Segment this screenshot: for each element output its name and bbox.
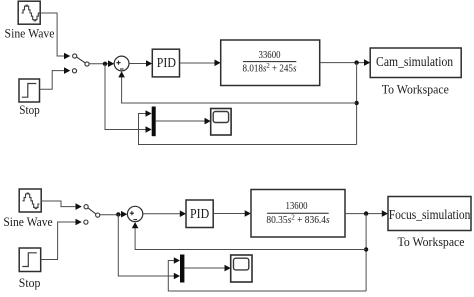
block Focus_simulation To Workspace (bottom) — [388, 197, 471, 231]
svg-text:80.35s2 + 836.4s: 80.35s2 + 836.4s — [266, 213, 329, 226]
junction node J1 (top) — [103, 62, 107, 66]
scope block (bottom) — [231, 255, 252, 282]
arrowhead into sum + (bottom) — [121, 211, 127, 218]
label Stop (bottom) — [19, 276, 41, 290]
svg-text:Stop: Stop — [19, 276, 41, 290]
label Sine Wave (top) — [5, 26, 55, 41]
wire Sine Wave to switch input 1 (top) — [40, 13, 64, 56]
wire transfer fn to Focus_simulation (bottom) — [345, 213, 382, 215]
wire PID to transfer function (top) — [180, 62, 215, 64]
arrowhead into switch input 1 (bottom) — [76, 203, 82, 210]
arrowhead into mux input 2 (top) — [146, 126, 152, 133]
arrowhead into scope (top) — [205, 118, 211, 125]
arrowhead into Focus_simulation — [382, 210, 388, 217]
arrowhead into mux input 1 (bottom) — [174, 257, 180, 264]
mux block (top) — [152, 107, 156, 137]
junction node J2 (bottom) — [364, 211, 368, 215]
source block Sine Wave (top) — [18, 1, 40, 24]
manual switch (bottom) — [84, 205, 100, 225]
svg-text:8.018s2 + 245s: 8.018s2 + 245s — [243, 62, 297, 75]
arrowhead into switch input 2 (top) — [64, 67, 70, 74]
arrowhead into switch input 1 (top) — [64, 53, 70, 60]
feedback wire to sum minus (bottom) — [135, 226, 366, 250]
svg-text:13600: 13600 — [286, 202, 308, 213]
mux block (bottom) — [180, 255, 184, 283]
sum block (top) — [114, 56, 129, 71]
wire mux to scope (top) — [156, 120, 205, 122]
arrowhead into PID (bottom) — [180, 210, 186, 217]
arrowhead up into sum minus (top) — [118, 71, 125, 77]
label Sine Wave (bottom) — [3, 214, 53, 229]
junction node on feedback rail (bottom) — [364, 247, 368, 251]
wire J1 down to mux input 2 (bottom) — [118, 214, 174, 276]
svg-text:To Workspace: To Workspace — [382, 82, 449, 96]
scope block (top) — [211, 109, 231, 136]
block PID (top) — [152, 49, 179, 77]
source block Stop (bottom) — [19, 248, 41, 272]
svg-text:Stop: Stop — [19, 102, 40, 117]
junction node J2 (top) — [354, 60, 358, 64]
svg-text:Cam_simulation: Cam_simulation — [376, 54, 454, 69]
wire Stop to switch input 2 (bottom) — [41, 222, 76, 260]
svg-text:33600: 33600 — [259, 51, 281, 62]
wire Sine Wave to switch input 1 (bottom) — [41, 201, 76, 207]
feedback wire to sum minus (top) — [122, 76, 357, 104]
wire mux to scope (bottom) — [184, 267, 225, 269]
source block Sine Wave (bottom) — [19, 189, 41, 212]
wire sum to PID (bottom) — [143, 213, 181, 215]
arrowhead into scope (bottom) — [225, 265, 231, 272]
arrowhead into sum + (top) — [108, 60, 114, 67]
label To Workspace (bottom) — [398, 234, 465, 248]
wire transfer fn to Cam_simulation (top) — [320, 62, 365, 64]
wire Stop to switch input 2 (top) — [40, 71, 65, 90]
arrowhead into mux input 1 (top) — [146, 110, 152, 117]
block Cam_simulation To Workspace (top) — [370, 48, 461, 78]
svg-text:Focus_simulation: Focus_simulation — [389, 207, 471, 222]
junction node on feedback rail (top) — [354, 101, 358, 105]
junction node J1 (bottom) — [116, 212, 120, 216]
arrowhead into transfer fn (top) — [215, 60, 221, 67]
arrowhead up into sum minus (bottom) — [132, 222, 139, 228]
svg-text:Sine Wave: Sine Wave — [3, 214, 53, 229]
block PID (bottom) — [186, 200, 213, 228]
sum block (bottom) — [127, 206, 142, 221]
wire J2 down to rails (bottom) — [365, 214, 367, 291]
wire PID to transfer fn (bottom) — [213, 213, 245, 215]
svg-text:To Workspace: To Workspace — [398, 234, 465, 248]
transfer function block 33600/(8.018s^2+245s) (top) — [221, 40, 320, 86]
arrowhead into switch input 2 (bottom) — [76, 219, 82, 226]
arrowhead into Cam_simulation — [364, 59, 370, 66]
wire switch output to sum (bottom) — [100, 214, 122, 216]
arrowhead into transfer fn (bottom) — [245, 210, 251, 217]
transfer function block 13600/(80.35s^2+836.4s) (bottom) — [251, 190, 345, 238]
source block Stop (top) — [19, 79, 40, 102]
svg-text:PID: PID — [190, 205, 209, 221]
wire J1 down to mux input 2 (top) — [105, 64, 146, 130]
svg-text:PID: PID — [157, 54, 176, 70]
manual switch (top) — [72, 54, 89, 73]
wire bottom rail to mux input 1 (bottom) — [168, 261, 366, 292]
label To Workspace (top) — [382, 82, 449, 96]
wire J2 down to rails (top) — [356, 63, 358, 145]
arrowhead into mux input 2 (bottom) — [174, 273, 180, 280]
arrowhead into PID (top) — [146, 60, 152, 67]
svg-text:Sine Wave: Sine Wave — [5, 26, 55, 41]
wire switch output to sum (top) — [89, 63, 108, 65]
wire sum to PID (top) — [129, 63, 147, 65]
label Stop (top) — [19, 102, 40, 117]
wire bottom rail to mux input 1 (top) — [139, 114, 357, 145]
